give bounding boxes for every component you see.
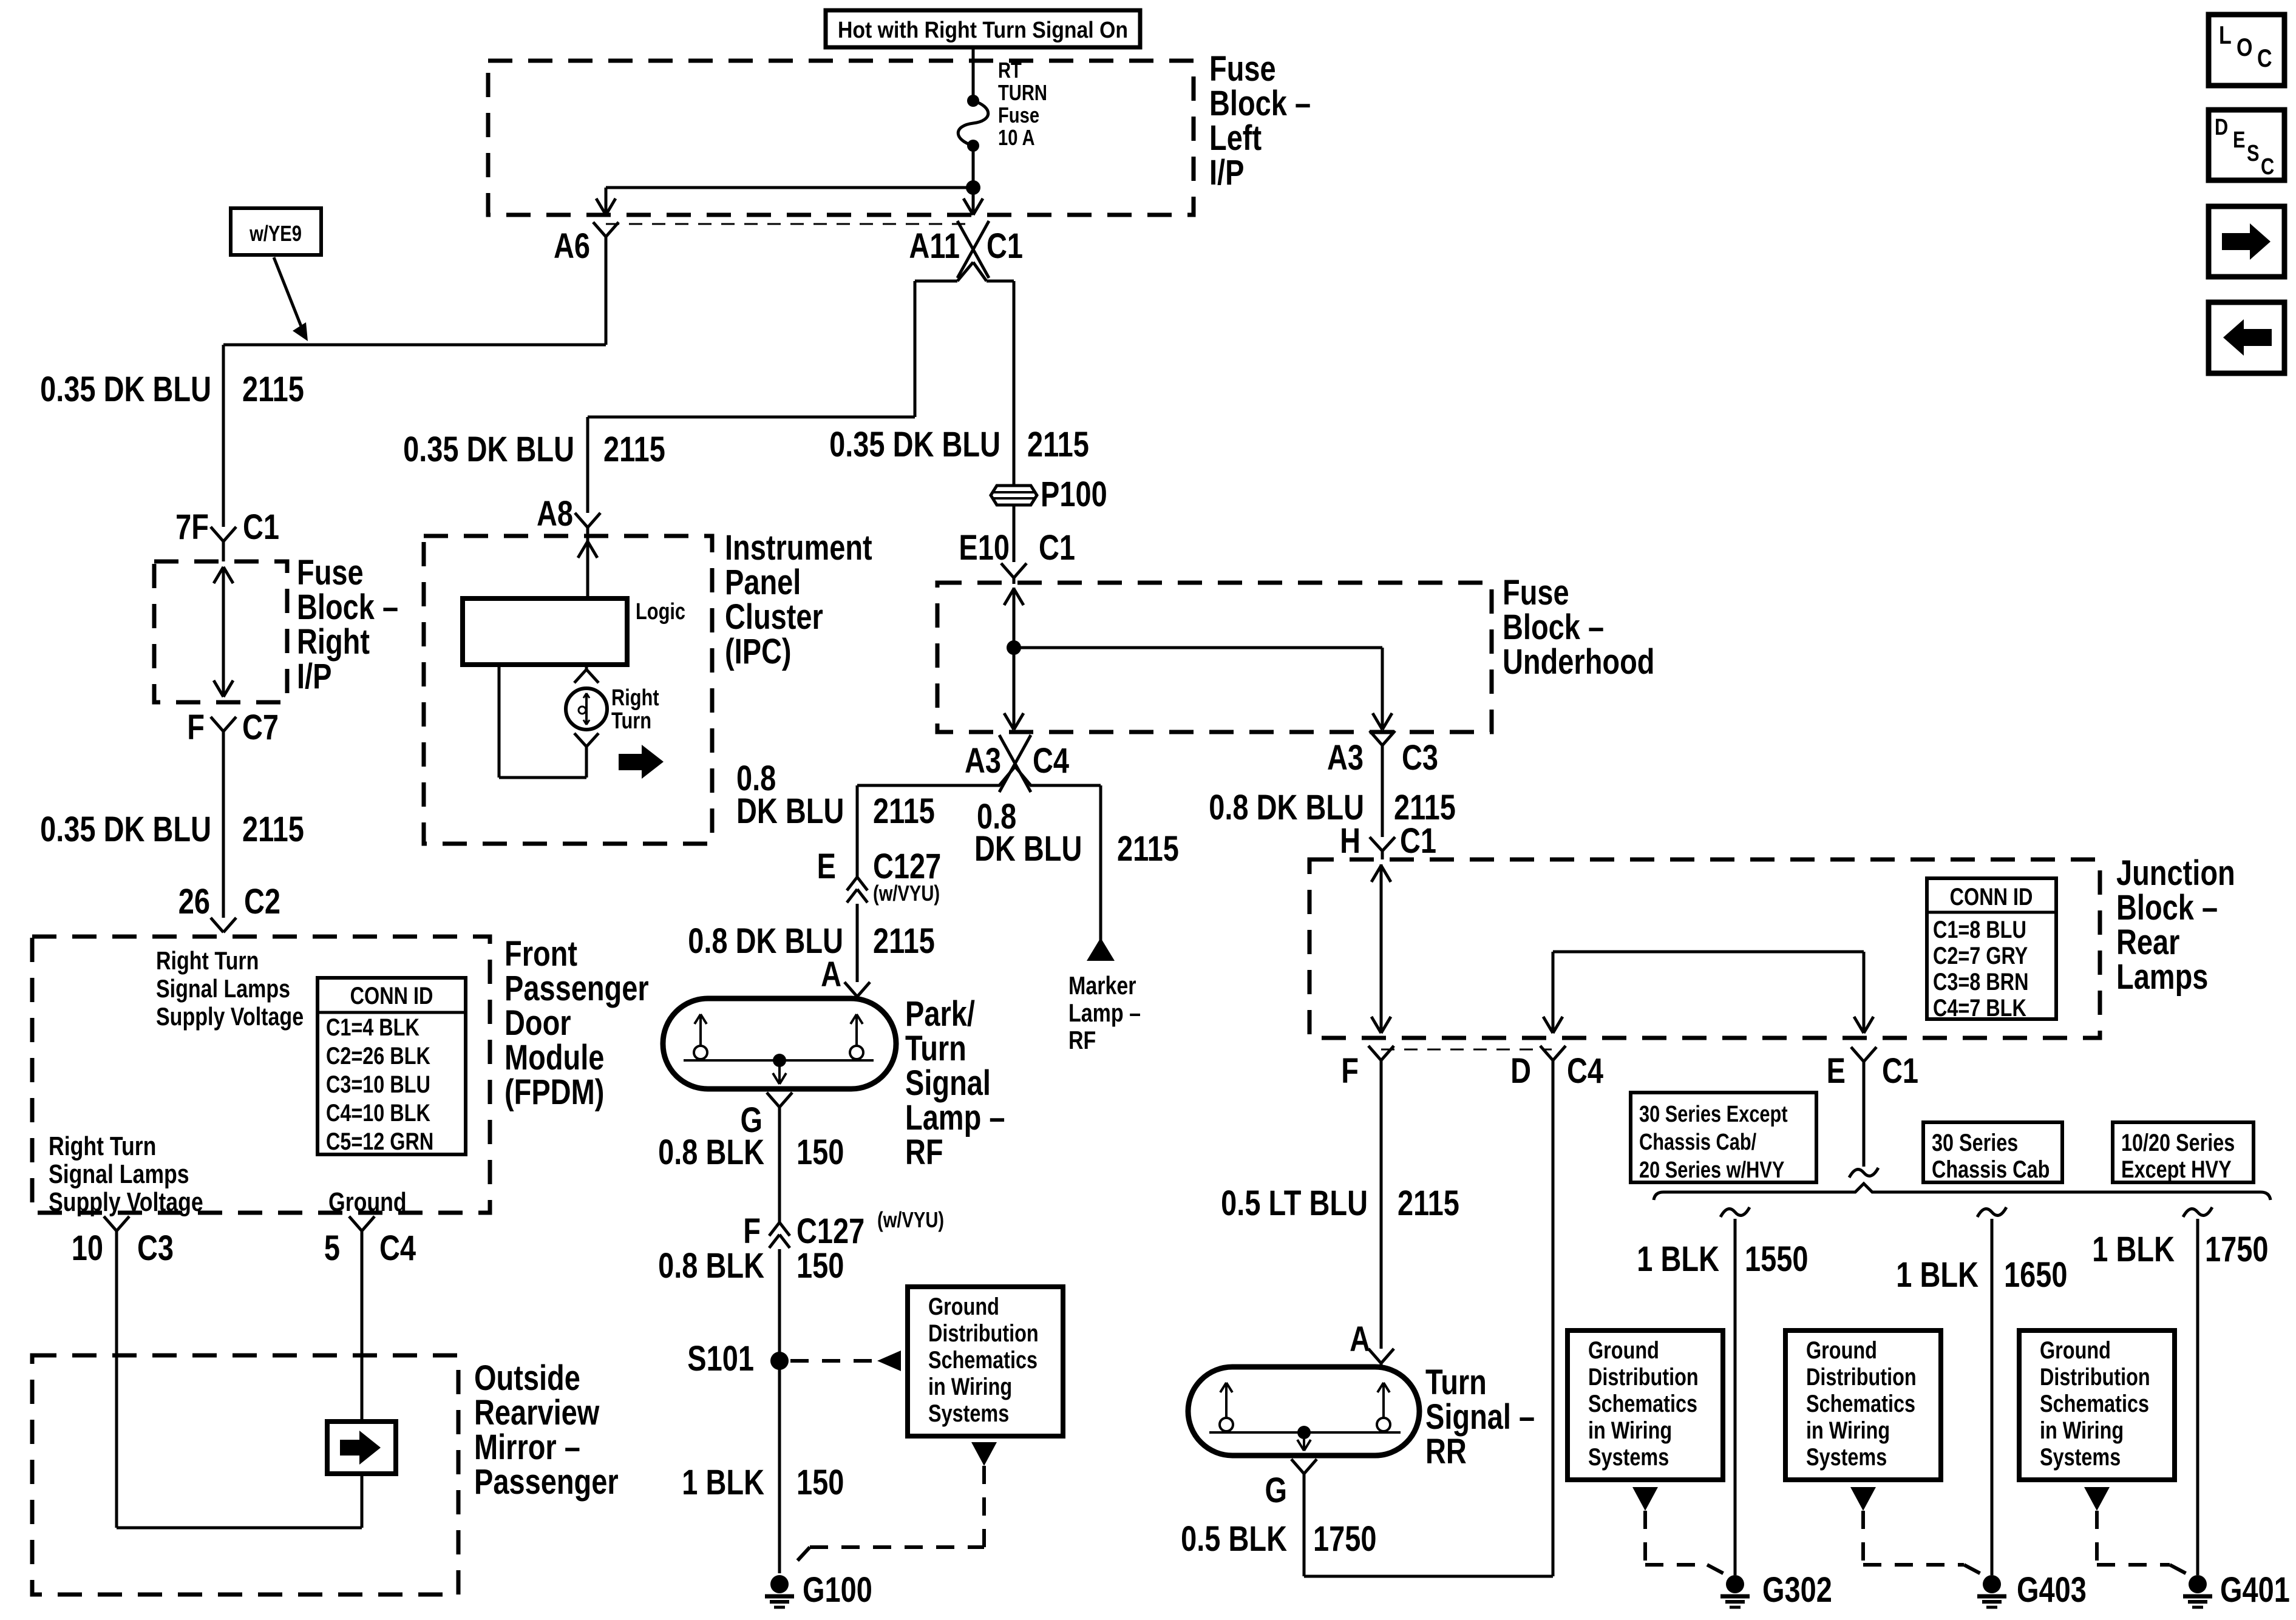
svg-text:Underhood: Underhood xyxy=(1503,642,1654,682)
svg-text:Instrument: Instrument xyxy=(725,528,872,568)
svg-text:Schematics: Schematics xyxy=(2040,1390,2149,1417)
svg-text:150: 150 xyxy=(796,1463,844,1502)
svg-text:1 BLK: 1 BLK xyxy=(1637,1239,1719,1279)
svg-text:C1: C1 xyxy=(987,226,1023,266)
svg-text:2115: 2115 xyxy=(873,921,935,961)
svg-text:C: C xyxy=(2261,154,2274,180)
svg-text:Lamps: Lamps xyxy=(2116,957,2208,997)
svg-text:(FPDM): (FPDM) xyxy=(504,1073,604,1112)
svg-text:C4: C4 xyxy=(1567,1051,1604,1091)
svg-text:Distribution: Distribution xyxy=(928,1320,1039,1347)
svg-text:C127: C127 xyxy=(796,1212,864,1251)
svg-text:2115: 2115 xyxy=(1117,829,1179,869)
svg-text:Rearview: Rearview xyxy=(474,1393,600,1432)
svg-text:Right: Right xyxy=(297,622,370,662)
svg-text:Marker: Marker xyxy=(1068,972,1136,1000)
svg-text:Outside: Outside xyxy=(474,1358,580,1398)
svg-text:Rear: Rear xyxy=(2116,923,2179,962)
svg-text:150: 150 xyxy=(796,1133,844,1172)
svg-text:Logic: Logic xyxy=(636,599,685,625)
svg-text:Passenger: Passenger xyxy=(504,969,649,1008)
svg-text:0.35 DK BLU: 0.35 DK BLU xyxy=(829,425,1000,464)
svg-text:1 BLK: 1 BLK xyxy=(2092,1230,2175,1269)
svg-text:S101: S101 xyxy=(687,1339,754,1378)
svg-text:CONN ID: CONN ID xyxy=(350,982,433,1009)
svg-text:L: L xyxy=(2219,21,2232,50)
svg-text:C2=7 GRY: C2=7 GRY xyxy=(1933,942,2028,969)
svg-text:Distribution: Distribution xyxy=(1806,1363,1917,1391)
svg-text:0.5 LT BLU: 0.5 LT BLU xyxy=(1221,1184,1368,1223)
svg-text:F: F xyxy=(1341,1051,1359,1091)
svg-text:Schematics: Schematics xyxy=(1806,1390,1915,1417)
svg-text:A8: A8 xyxy=(537,494,573,534)
svg-text:Ground: Ground xyxy=(328,1188,407,1217)
svg-text:1750: 1750 xyxy=(2205,1230,2268,1269)
svg-text:Signal –: Signal – xyxy=(1425,1397,1535,1437)
svg-text:C3=8 BRN: C3=8 BRN xyxy=(1933,968,2028,995)
svg-text:Signal: Signal xyxy=(905,1063,991,1103)
svg-text:2115: 2115 xyxy=(873,791,935,831)
svg-text:Junction: Junction xyxy=(2116,853,2235,893)
svg-text:Front: Front xyxy=(504,934,577,974)
svg-text:E: E xyxy=(1827,1051,1846,1091)
svg-text:F: F xyxy=(187,708,205,747)
svg-text:Right: Right xyxy=(611,685,659,711)
svg-text:0.35 DK BLU: 0.35 DK BLU xyxy=(40,810,211,849)
svg-text:0.5 BLK: 0.5 BLK xyxy=(1181,1519,1287,1559)
svg-text:2115: 2115 xyxy=(242,370,304,409)
svg-text:30 Series: 30 Series xyxy=(1932,1129,2018,1156)
svg-text:2115: 2115 xyxy=(1027,425,1089,464)
svg-text:in Wiring: in Wiring xyxy=(928,1373,1012,1400)
svg-text:C4=7 BLK: C4=7 BLK xyxy=(1933,994,2026,1022)
svg-text:Fuse: Fuse xyxy=(998,103,1039,127)
svg-text:1 BLK: 1 BLK xyxy=(1896,1255,1978,1295)
svg-text:Lamp –: Lamp – xyxy=(1068,999,1141,1028)
svg-text:(w/VYU): (w/VYU) xyxy=(873,881,940,906)
svg-text:A3: A3 xyxy=(965,741,1001,781)
svg-text:Panel: Panel xyxy=(725,563,801,602)
svg-text:Park/: Park/ xyxy=(905,994,975,1034)
svg-text:C1=4 BLK: C1=4 BLK xyxy=(326,1014,419,1041)
svg-text:Cluster: Cluster xyxy=(725,597,823,637)
svg-text:10: 10 xyxy=(72,1229,103,1268)
svg-text:D: D xyxy=(1510,1051,1531,1091)
svg-text:Turn: Turn xyxy=(905,1029,966,1068)
svg-text:Signal Lamps: Signal Lamps xyxy=(49,1160,189,1189)
svg-text:in Wiring: in Wiring xyxy=(2040,1417,2124,1444)
svg-text:RR: RR xyxy=(1425,1432,1467,1471)
svg-text:Ground: Ground xyxy=(2040,1337,2111,1364)
svg-text:RT: RT xyxy=(998,58,1022,83)
svg-text:C4=10 BLK: C4=10 BLK xyxy=(326,1099,430,1127)
svg-text:I/P: I/P xyxy=(297,657,331,696)
svg-text:G100: G100 xyxy=(803,1570,872,1610)
svg-text:D: D xyxy=(2215,115,2228,140)
svg-text:Schematics: Schematics xyxy=(928,1346,1038,1374)
svg-text:0.35 DK BLU: 0.35 DK BLU xyxy=(40,370,211,409)
svg-text:I/P: I/P xyxy=(1209,153,1244,192)
svg-text:G401: G401 xyxy=(2220,1570,2290,1610)
svg-text:DK BLU: DK BLU xyxy=(736,791,844,831)
svg-text:in Wiring: in Wiring xyxy=(1806,1417,1890,1444)
svg-text:1650: 1650 xyxy=(2004,1255,2067,1295)
svg-text:2115: 2115 xyxy=(603,430,665,469)
svg-text:RF: RF xyxy=(905,1133,943,1172)
svg-text:A: A xyxy=(1350,1320,1370,1359)
svg-text:DK BLU: DK BLU xyxy=(974,829,1082,869)
svg-text:C3=10 BLU: C3=10 BLU xyxy=(326,1071,430,1098)
svg-text:20 Series w/HVY: 20 Series w/HVY xyxy=(1639,1157,1784,1183)
svg-text:Ground: Ground xyxy=(1806,1337,1877,1364)
svg-text:Ground: Ground xyxy=(928,1293,999,1320)
svg-text:10 A: 10 A xyxy=(998,125,1035,150)
svg-text:C7: C7 xyxy=(242,708,279,747)
svg-text:0.35 DK BLU: 0.35 DK BLU xyxy=(403,430,574,469)
svg-text:0.8 BLK: 0.8 BLK xyxy=(658,1133,764,1172)
svg-text:Block –: Block – xyxy=(1503,608,1604,647)
svg-text:F: F xyxy=(743,1212,761,1251)
svg-text:S: S xyxy=(2247,141,2260,166)
svg-text:Systems: Systems xyxy=(928,1400,1009,1427)
svg-text:0.8 DK BLU: 0.8 DK BLU xyxy=(688,921,843,961)
svg-text:7F: 7F xyxy=(175,507,209,547)
svg-text:Block –: Block – xyxy=(297,588,398,627)
svg-text:O: O xyxy=(2237,33,2252,62)
svg-text:Left: Left xyxy=(1209,118,1262,158)
svg-text:A6: A6 xyxy=(554,226,590,266)
svg-text:C1=8 BLU: C1=8 BLU xyxy=(1933,916,2026,943)
svg-text:Turn: Turn xyxy=(1425,1363,1487,1402)
svg-text:C4: C4 xyxy=(379,1229,416,1268)
svg-text:30 Series Except: 30 Series Except xyxy=(1639,1102,1788,1127)
svg-text:Systems: Systems xyxy=(2040,1443,2121,1471)
svg-text:Distribution: Distribution xyxy=(1588,1363,1699,1391)
svg-text:E10: E10 xyxy=(959,528,1010,568)
svg-text:A: A xyxy=(821,955,841,994)
svg-text:C1: C1 xyxy=(243,507,279,547)
svg-text:w/YE9: w/YE9 xyxy=(249,221,302,246)
svg-text:G302: G302 xyxy=(1762,1570,1832,1610)
svg-text:10/20 Series: 10/20 Series xyxy=(2121,1129,2235,1156)
svg-text:Module: Module xyxy=(504,1038,604,1077)
svg-text:1750: 1750 xyxy=(1313,1519,1376,1559)
svg-text:Chassis Cab/: Chassis Cab/ xyxy=(1639,1130,1757,1155)
svg-text:G: G xyxy=(1265,1471,1287,1510)
svg-text:Schematics: Schematics xyxy=(1588,1390,1697,1417)
svg-text:RF: RF xyxy=(1068,1026,1096,1055)
svg-text:C5=12 GRN: C5=12 GRN xyxy=(326,1128,433,1155)
svg-text:Signal Lamps: Signal Lamps xyxy=(156,975,290,1003)
svg-text:A3: A3 xyxy=(1327,738,1364,778)
svg-text:H: H xyxy=(1340,821,1360,861)
svg-text:C3: C3 xyxy=(1402,738,1438,778)
svg-text:C1: C1 xyxy=(1039,528,1075,568)
svg-text:C1: C1 xyxy=(1400,821,1436,861)
svg-text:150: 150 xyxy=(796,1246,844,1286)
svg-text:Supply Voltage: Supply Voltage xyxy=(156,1003,304,1031)
svg-text:0.8 BLK: 0.8 BLK xyxy=(658,1246,764,1286)
svg-text:Right Turn: Right Turn xyxy=(156,947,259,975)
svg-text:2115: 2115 xyxy=(242,810,304,849)
svg-text:C: C xyxy=(2257,44,2272,73)
svg-text:E: E xyxy=(2233,127,2246,153)
svg-text:Hot with Right Turn Signal On: Hot with Right Turn Signal On xyxy=(838,18,1128,43)
svg-text:TURN: TURN xyxy=(998,80,1047,105)
svg-text:5: 5 xyxy=(324,1229,340,1268)
svg-text:C4: C4 xyxy=(1033,741,1070,781)
svg-text:2115: 2115 xyxy=(1398,1184,1459,1223)
svg-text:C3: C3 xyxy=(137,1229,174,1268)
svg-text:Systems: Systems xyxy=(1806,1443,1887,1471)
svg-text:26: 26 xyxy=(178,882,210,921)
svg-text:C2: C2 xyxy=(244,882,280,921)
svg-text:(IPC): (IPC) xyxy=(725,632,792,671)
svg-text:Fuse: Fuse xyxy=(1209,49,1276,89)
svg-text:Turn: Turn xyxy=(611,708,651,734)
svg-text:Fuse: Fuse xyxy=(1503,573,1569,612)
svg-text:Fuse: Fuse xyxy=(297,553,364,592)
svg-text:A11: A11 xyxy=(909,226,960,266)
svg-text:Lamp –: Lamp – xyxy=(905,1098,1005,1137)
svg-text:CONN ID: CONN ID xyxy=(1950,883,2033,910)
svg-text:Ground: Ground xyxy=(1588,1337,1659,1364)
svg-text:Chassis Cab: Chassis Cab xyxy=(1932,1156,2050,1183)
svg-text:C2=26 BLK: C2=26 BLK xyxy=(326,1042,430,1069)
svg-text:in Wiring: in Wiring xyxy=(1588,1417,1672,1444)
svg-text:Distribution: Distribution xyxy=(2040,1363,2150,1391)
svg-text:1550: 1550 xyxy=(1745,1239,1808,1279)
svg-text:E: E xyxy=(817,847,836,886)
svg-text:Except HVY: Except HVY xyxy=(2121,1156,2232,1183)
svg-text:Supply Voltage: Supply Voltage xyxy=(49,1188,203,1217)
svg-text:Passenger: Passenger xyxy=(474,1462,619,1502)
svg-text:1 BLK: 1 BLK xyxy=(682,1463,764,1502)
svg-text:Mirror –: Mirror – xyxy=(474,1428,580,1467)
svg-text:Block –: Block – xyxy=(2116,888,2218,927)
svg-text:G403: G403 xyxy=(2017,1570,2087,1610)
svg-text:P100: P100 xyxy=(1041,475,1107,514)
svg-text:Systems: Systems xyxy=(1588,1443,1669,1471)
svg-text:C1: C1 xyxy=(1882,1051,1918,1091)
svg-text:Door: Door xyxy=(504,1003,571,1043)
svg-text:Block –: Block – xyxy=(1209,84,1311,123)
svg-text:(w/VYU): (w/VYU) xyxy=(877,1207,944,1232)
svg-text:Right Turn: Right Turn xyxy=(49,1132,156,1161)
